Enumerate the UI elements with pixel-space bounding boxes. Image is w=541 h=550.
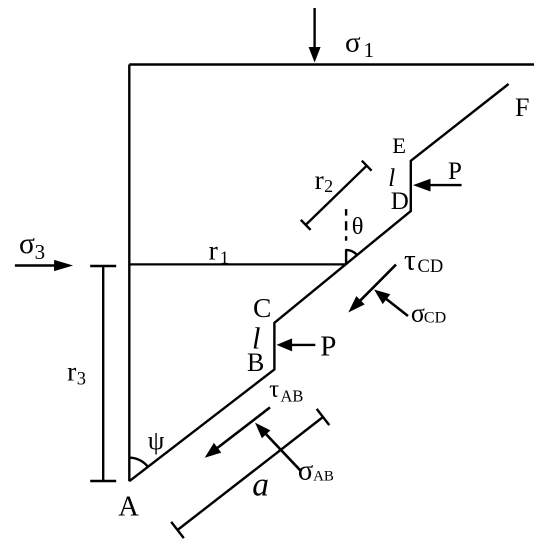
svg-text:D: D <box>391 188 409 215</box>
svg-text:A: A <box>118 492 139 523</box>
svg-text:CD: CD <box>424 310 446 327</box>
fault line A-B-C-D-E-F <box>129 84 508 481</box>
theta angle arc at junction <box>346 250 357 255</box>
sigma_CD arrow <box>374 290 408 317</box>
svg-text:C: C <box>253 292 271 323</box>
svg-text:F: F <box>515 93 529 122</box>
svg-text:l: l <box>388 165 395 192</box>
top boundary line <box>129 63 534 65</box>
svg-text:1: 1 <box>220 248 229 268</box>
tau_AB label <box>269 376 303 405</box>
svg-text:r: r <box>209 235 218 266</box>
svg-text:r: r <box>315 164 324 195</box>
sigma1 label <box>345 27 374 62</box>
svg-text:3: 3 <box>35 240 46 264</box>
svg-text:P: P <box>448 158 462 185</box>
r1 line <box>129 263 346 265</box>
upper P arrow <box>413 179 462 192</box>
svg-text:τ: τ <box>404 245 416 277</box>
theta dashed reference line <box>345 209 347 265</box>
sigma_CD label <box>411 298 446 327</box>
svg-text:τ: τ <box>269 376 279 403</box>
r3 label <box>67 355 86 389</box>
svg-text:θ: θ <box>352 213 364 240</box>
left vertical boundary line <box>128 65 130 482</box>
svg-text:P: P <box>320 331 336 363</box>
sigma1 arrow <box>309 8 321 63</box>
svg-text:E: E <box>392 133 406 158</box>
svg-text:AB: AB <box>313 469 334 485</box>
dimension line a <box>171 409 329 538</box>
tau_CD label <box>404 245 443 278</box>
svg-text:ψ: ψ <box>148 425 165 455</box>
psi angle arc at A <box>129 458 148 467</box>
lower P arrow <box>277 338 316 351</box>
sigma_AB label <box>298 456 334 487</box>
svg-text:2: 2 <box>324 176 333 196</box>
svg-text:a: a <box>252 467 269 504</box>
dimension line r2 <box>301 161 372 230</box>
svg-text:CD: CD <box>418 257 444 277</box>
dimension line r3 <box>90 266 116 481</box>
tau_AB arrow <box>205 407 270 457</box>
svg-text:σ: σ <box>411 298 425 327</box>
svg-text:1: 1 <box>364 38 375 62</box>
r1 label <box>209 235 229 268</box>
svg-text:σ: σ <box>345 27 361 59</box>
r2 label <box>315 164 334 196</box>
svg-text:AB: AB <box>281 386 304 405</box>
sigma3 label <box>19 228 45 264</box>
svg-text:r: r <box>67 355 76 386</box>
svg-text:l: l <box>252 321 260 355</box>
svg-text:σ: σ <box>19 228 35 260</box>
svg-text:3: 3 <box>77 370 86 390</box>
svg-text:σ: σ <box>298 456 313 487</box>
sigma3 arrow <box>15 260 73 271</box>
tau_CD arrow <box>348 265 396 313</box>
sigma_AB arrow <box>255 423 301 471</box>
